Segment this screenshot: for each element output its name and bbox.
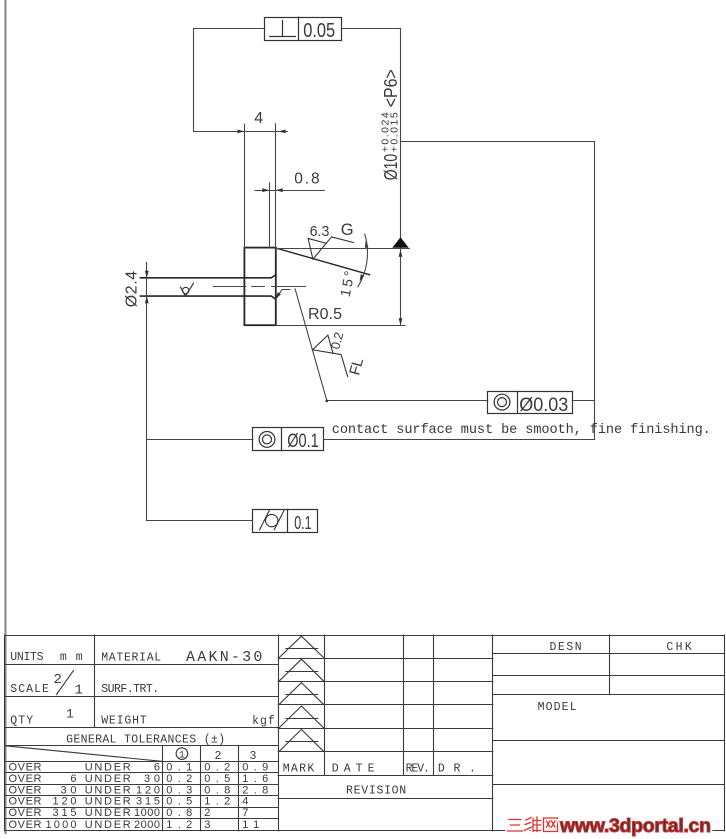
title block bottom border <box>5 830 724 832</box>
svg-text:6.3: 6.3 <box>310 223 330 240</box>
svg-text:OVER: OVER <box>9 773 42 785</box>
svg-text:www.3dportal.cn: www.3dportal.cn <box>559 815 711 837</box>
svg-text:FL: FL <box>346 356 367 377</box>
svg-text:1000: 1000 <box>46 819 77 831</box>
svg-text:OVER: OVER <box>9 807 42 819</box>
svg-text:mm: mm <box>60 651 83 664</box>
svg-text:0.1: 0.1 <box>294 513 311 533</box>
watermark char wang <box>544 818 558 832</box>
svg-text:Ø0.03: Ø0.03 <box>519 395 568 416</box>
svg-text:1.2: 1.2 <box>166 819 192 831</box>
svg-text:+0.015: +0.015 <box>388 112 400 152</box>
svg-text:0.8: 0.8 <box>166 807 192 819</box>
svg-text:4: 4 <box>242 796 248 808</box>
svg-text:0.8: 0.8 <box>204 784 230 796</box>
svg-text:GENERAL TOLERANCES (±): GENERAL TOLERANCES (±) <box>66 733 225 746</box>
dim 4 arrow right <box>279 130 286 134</box>
middle section row lines <box>278 658 493 660</box>
svg-text:1: 1 <box>179 751 185 762</box>
svg-text:120: 120 <box>53 796 77 808</box>
tolerance row 6 <box>9 819 260 831</box>
dim 4 dimension line <box>194 131 287 133</box>
svg-text:0.3: 0.3 <box>166 784 192 796</box>
svg-text:3: 3 <box>204 819 210 831</box>
cylindricity frame divider <box>287 509 289 532</box>
chevron mark 2 <box>279 659 323 681</box>
row line tolerances header <box>5 745 279 747</box>
svg-text:G: G <box>341 221 354 239</box>
column divider units/material <box>94 635 96 728</box>
svg-text:<P6>: <P6> <box>381 69 401 107</box>
tolerance table column lines <box>162 746 164 831</box>
chevron mark 1 <box>279 636 323 657</box>
svg-text:UNDER: UNDER <box>85 784 131 796</box>
svg-text:Ø0.1: Ø0.1 <box>287 431 319 452</box>
svg-text:SURF.TRT.: SURF.TRT. <box>101 683 159 696</box>
long leader from contact surface to concentricity frame <box>295 289 488 401</box>
R0.5 leader with arrow <box>276 290 290 300</box>
svg-text:D R .: D R . <box>438 763 476 776</box>
chevron mark 5 <box>279 729 323 751</box>
surface finish symbol 0.2 FL on leader <box>310 333 348 383</box>
title block left border <box>4 635 6 831</box>
dia10 dimension line / datum leader vertical <box>400 28 402 325</box>
svg-text:OVER: OVER <box>9 762 42 774</box>
svg-text:DESN: DESN <box>550 641 582 654</box>
svg-text:OVER: OVER <box>9 819 42 831</box>
perpendicularity frame leader left <box>194 29 265 132</box>
concentricity frame dia0.03 <box>488 392 573 414</box>
dim 0.8 arrow left <box>262 188 269 192</box>
branch line from dia10 to frames <box>401 141 595 143</box>
part body outline (cylinder side view) <box>244 248 275 326</box>
svg-text:0.8: 0.8 <box>294 170 319 187</box>
svg-text:0.1: 0.1 <box>166 762 192 774</box>
svg-text:1.2: 1.2 <box>204 796 230 808</box>
svg-text:0.2: 0.2 <box>204 762 230 774</box>
svg-text:contact surface must be smooth: contact surface must be smooth, fine fin… <box>332 423 711 438</box>
middle section left edge <box>278 635 280 831</box>
svg-text:2: 2 <box>54 672 62 688</box>
svg-text:0.5: 0.5 <box>204 773 230 785</box>
svg-text:0.5: 0.5 <box>166 796 192 808</box>
svg-text:30: 30 <box>144 773 160 785</box>
dia10 bottom extension line <box>276 325 405 327</box>
svg-text:MATERIAL: MATERIAL <box>101 651 161 664</box>
svg-text:kgf: kgf <box>252 715 275 728</box>
sheet left border <box>5 0 7 833</box>
svg-text:Ø2.4: Ø2.4 <box>123 271 140 307</box>
svg-text:0.2: 0.2 <box>328 331 346 351</box>
svg-text:MODEL: MODEL <box>538 701 577 714</box>
frame divider <box>281 428 283 451</box>
svg-text:0.05: 0.05 <box>303 19 335 42</box>
svg-text:REV.: REV. <box>406 763 430 776</box>
svg-text:2: 2 <box>204 807 210 819</box>
svg-text:UNITS: UNITS <box>10 651 43 664</box>
svg-text:0.9: 0.9 <box>242 762 268 774</box>
svg-text:15°: 15° <box>337 269 358 298</box>
concentricity frame divider <box>517 391 519 413</box>
perpendicularity symbol <box>270 21 296 37</box>
shaft top edge with fillet chamfer <box>140 275 275 278</box>
svg-text:CHK: CHK <box>666 641 691 654</box>
svg-text:UNDER: UNDER <box>85 796 131 808</box>
leader bend dot <box>325 400 328 403</box>
perpendicularity frame leader right <box>342 28 401 30</box>
shaft bottom edge with fillet chamfer <box>140 296 275 299</box>
svg-text:D A T E: D A T E <box>332 763 375 776</box>
concentricity symbol circles <box>259 432 275 448</box>
svg-text:OVER: OVER <box>9 784 42 796</box>
tolerance row 2 <box>9 773 269 785</box>
tolerance row 5 <box>9 807 249 819</box>
svg-text:R0.5: R0.5 <box>308 306 342 323</box>
svg-text:1000: 1000 <box>134 807 160 819</box>
svg-text:Ø10: Ø10 <box>381 154 401 181</box>
dia0.1 frame leader right <box>324 439 595 441</box>
svg-text:MARK: MARK <box>283 763 315 776</box>
tolerance class 1 circle <box>176 748 188 760</box>
cylindricity frame leader <box>147 520 253 522</box>
svg-text:7: 7 <box>242 807 248 819</box>
svg-text:315: 315 <box>53 807 77 819</box>
tolerance row 1 <box>9 762 269 774</box>
TITLE BLOCK <box>5 635 725 831</box>
cylindricity frame <box>253 510 318 533</box>
svg-text:2000: 2000 <box>134 819 160 831</box>
chevron mark 3 <box>279 683 323 705</box>
dia2.4 dimension line vertical <box>146 262 148 520</box>
svg-text:QTY: QTY <box>10 714 33 727</box>
dia2.4 arrow bottom <box>145 296 149 303</box>
angle arc arrow top <box>365 241 369 248</box>
svg-text:UNDER: UNDER <box>85 773 131 785</box>
svg-text:UNDER: UNDER <box>85 819 131 831</box>
dia10 top extension line <box>276 248 410 250</box>
svg-text:AAKN-30: AAKN-30 <box>186 649 262 666</box>
red watermark <box>508 817 558 832</box>
concentricity symbol circles <box>494 394 510 410</box>
title block right border <box>724 635 726 831</box>
concentricity frame dia0.1 <box>253 428 324 451</box>
svg-text:120: 120 <box>136 784 160 796</box>
R0.5 arrow <box>276 292 281 299</box>
dia2.4 arrow top <box>145 271 149 278</box>
svg-text:REVISION: REVISION <box>346 785 406 798</box>
tolerance table row lines <box>5 761 279 763</box>
svg-text:11: 11 <box>242 819 259 831</box>
row line units <box>5 664 279 666</box>
svg-text:UNDER: UNDER <box>85 807 131 819</box>
dia0.1 frame leader left <box>147 439 253 441</box>
dim 0.8 arrow right <box>276 188 283 192</box>
svg-text:0.2: 0.2 <box>166 773 192 785</box>
diagonal in tolerance header cell <box>5 746 163 762</box>
row line scale <box>5 696 279 698</box>
cylindricity symbol <box>266 514 278 526</box>
chevron mark 4 <box>279 706 323 728</box>
dia10 arrow top <box>399 250 403 257</box>
datum filled triangle <box>392 237 408 248</box>
angle 15 dimension arc <box>358 234 368 287</box>
dia10 tolerance text rotated <box>380 69 401 180</box>
right vertical connector line <box>594 142 596 440</box>
svg-text:SCALE: SCALE <box>10 683 49 696</box>
svg-text:1.6: 1.6 <box>242 773 268 785</box>
row line qty <box>5 727 279 729</box>
scale fraction slash <box>57 671 74 695</box>
desn/chk divider <box>609 635 611 695</box>
svg-text:OVER: OVER <box>9 796 42 808</box>
svg-text:6: 6 <box>154 762 160 774</box>
svg-text:30: 30 <box>61 784 77 796</box>
perpendicularity frame divider <box>298 17 300 40</box>
svg-text:WEIGHT: WEIGHT <box>101 714 147 727</box>
watermark char wei <box>525 817 541 832</box>
svg-text:1: 1 <box>66 707 74 722</box>
svg-text:4: 4 <box>254 110 263 127</box>
svg-text:6: 6 <box>70 773 76 785</box>
right section rows <box>493 653 724 655</box>
middle section right edge <box>492 635 494 831</box>
tolerance row 4 <box>9 796 249 808</box>
svg-text:2.8: 2.8 <box>242 784 268 796</box>
dim 4 arrow left <box>238 130 245 134</box>
tolerance row 3 <box>9 784 269 796</box>
surface finish symbol 6.3 G on cone <box>303 231 353 268</box>
middle section columns <box>324 635 326 775</box>
dim 4 extension line right <box>275 124 277 248</box>
dim 4 extension line left <box>244 124 246 247</box>
15 degree cone line <box>276 248 370 275</box>
dia10 arrow bottom <box>399 318 403 325</box>
svg-text:315: 315 <box>136 796 160 808</box>
svg-text:UNDER: UNDER <box>85 762 131 774</box>
title block top border <box>5 635 724 637</box>
title block texts <box>9 641 692 831</box>
svg-text:1: 1 <box>75 683 83 699</box>
dim 0.8 dimension line <box>255 190 324 192</box>
watermark char san <box>508 820 523 832</box>
dim 0.8 extension line <box>269 183 271 248</box>
concentricity frame right leader <box>572 400 594 402</box>
angle arc arrow bottom <box>360 274 365 281</box>
centerline <box>213 286 305 288</box>
perpendicularity frame <box>265 18 342 41</box>
surface finish symbol on shaft (no machining circle) <box>181 283 194 296</box>
